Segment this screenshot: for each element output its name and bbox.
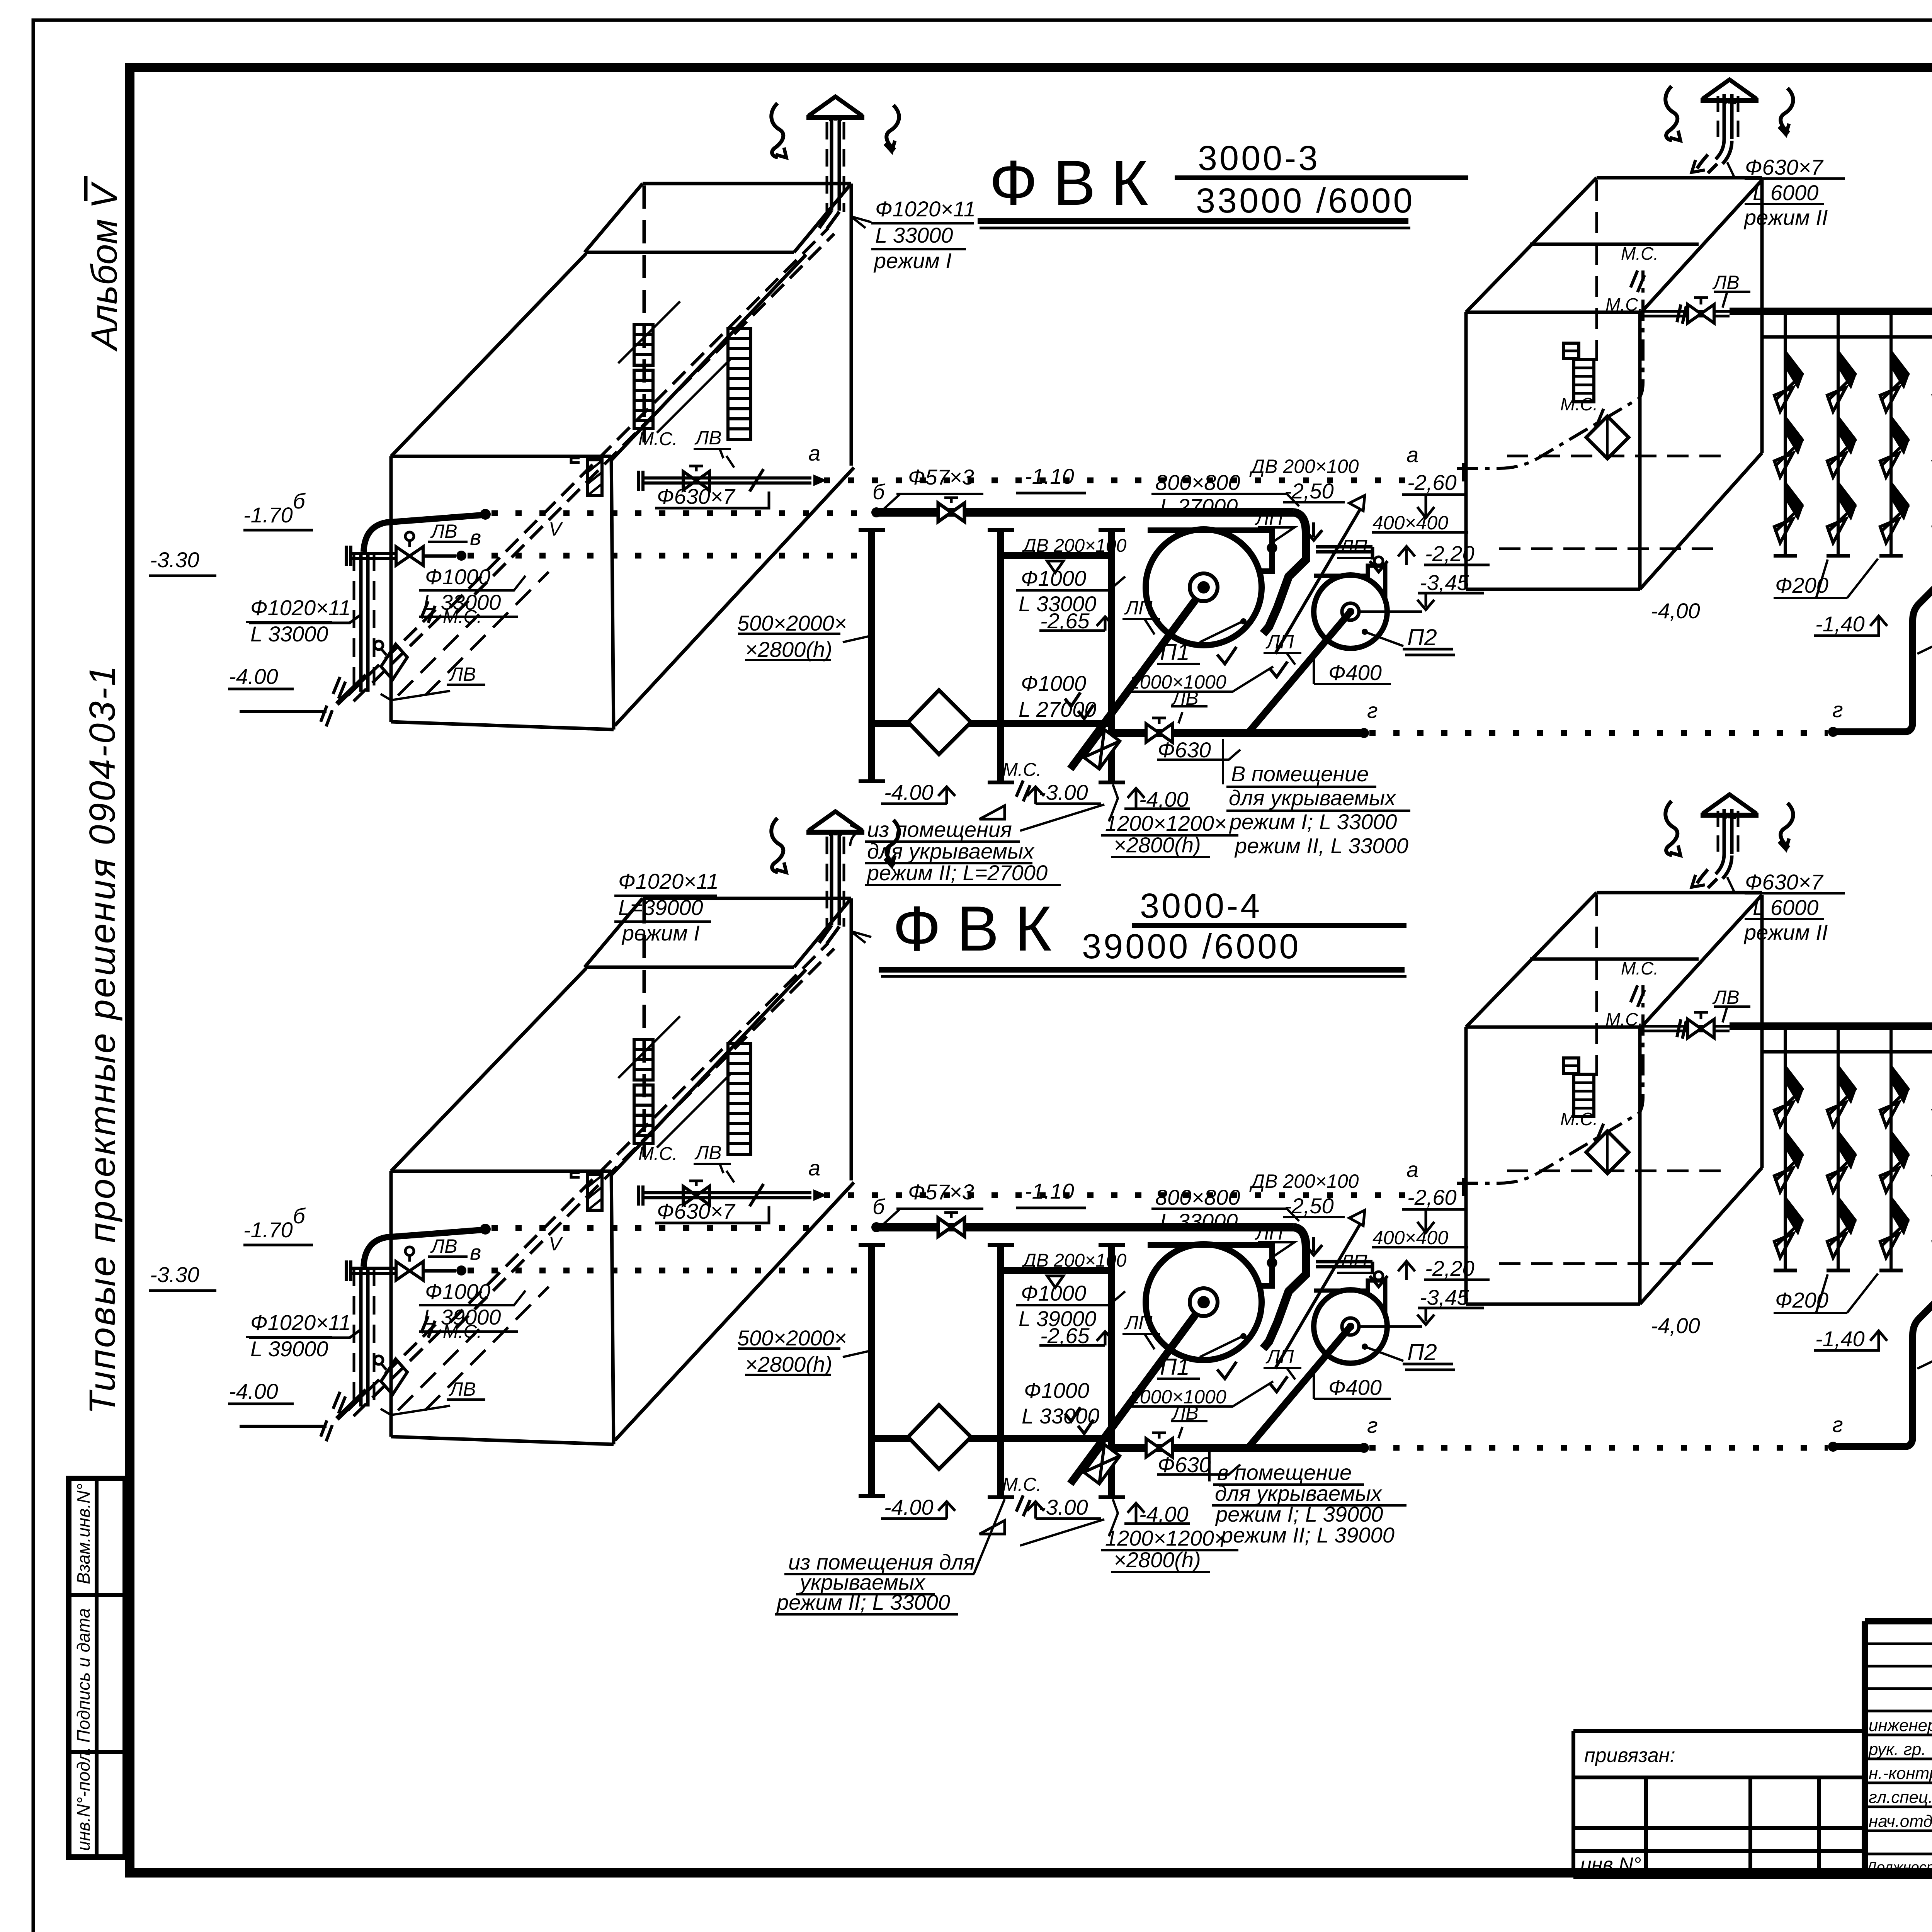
svg-text:режим II, L 33000: режим II, L 33000 xyxy=(1234,833,1408,858)
svg-text:режим I; L 33000: режим I; L 33000 xyxy=(1229,810,1397,834)
svg-text:L 33000: L 33000 xyxy=(1160,1209,1238,1233)
svg-text:L 33000: L 33000 xyxy=(875,223,953,247)
svg-text:L=39000: L=39000 xyxy=(618,895,703,920)
svg-text:Ф1000: Ф1000 xyxy=(1021,566,1086,590)
svg-text:рук. гр.: рук. гр. xyxy=(1868,1740,1926,1759)
svg-text:режим I: режим I xyxy=(873,248,952,273)
svg-text:Ф1000: Ф1000 xyxy=(1021,1281,1086,1305)
svg-text:800×800: 800×800 xyxy=(1155,470,1240,495)
svg-text:Должность: Должность xyxy=(1865,1859,1932,1876)
svg-text:Типовые проектные решения 0904: Типовые проектные решения 0904-03-1 xyxy=(82,664,123,1414)
svg-text:привязан:: привязан: xyxy=(1584,1744,1675,1767)
svg-text:режим II; L 39000: режим II; L 39000 xyxy=(1220,1523,1395,1547)
svg-text:ФВК: ФВК xyxy=(989,147,1164,218)
svg-text:3000-4: 3000-4 xyxy=(1140,887,1262,925)
svg-text:L 27000: L 27000 xyxy=(1019,697,1096,721)
svg-text:режим I: режим I xyxy=(621,921,700,945)
svg-text:инв.N°: инв.N° xyxy=(1580,1854,1641,1876)
svg-text:800×800: 800×800 xyxy=(1155,1185,1240,1209)
svg-text:L 39000: L 39000 xyxy=(1019,1306,1096,1331)
svg-text:гл.спец.: гл.спец. xyxy=(1869,1788,1932,1807)
svg-text:ФВК: ФВК xyxy=(893,893,1067,964)
svg-text:Ф1020×11: Ф1020×11 xyxy=(618,869,719,893)
svg-text:инженер: инженер xyxy=(1869,1716,1932,1735)
svg-text:Ф1020×11: Ф1020×11 xyxy=(875,197,976,221)
svg-text:В помещение: В помещение xyxy=(1231,762,1369,786)
svg-text:для укрываемых: для укрываемых xyxy=(1229,786,1396,810)
svg-text:33000 /6000: 33000 /6000 xyxy=(1196,182,1415,220)
svg-text:н.-контр.: н.-контр. xyxy=(1869,1764,1932,1783)
svg-text:Подпись и дата: Подпись и дата xyxy=(73,1608,94,1743)
svg-text:Ф1000: Ф1000 xyxy=(425,1279,490,1304)
svg-text:Ф1000: Ф1000 xyxy=(1021,671,1086,696)
svg-text:из помещения: из помещения xyxy=(867,817,1012,842)
svg-text:Ф1000: Ф1000 xyxy=(425,565,490,589)
svg-text:L 27000: L 27000 xyxy=(1160,494,1238,519)
svg-text:3000-3: 3000-3 xyxy=(1198,139,1320,178)
svg-text:L 39000: L 39000 xyxy=(423,1305,501,1329)
svg-text:L 33000: L 33000 xyxy=(1022,1404,1099,1428)
svg-text:инв.N°-подл.: инв.N°-подл. xyxy=(73,1747,94,1851)
svg-text:Взам.инв.N°: Взам.инв.N° xyxy=(73,1483,94,1584)
svg-text:нач.отд.: нач.отд. xyxy=(1869,1812,1932,1831)
svg-text:L 39000: L 39000 xyxy=(250,1337,328,1361)
svg-text:L 33000: L 33000 xyxy=(250,622,328,646)
svg-text:L 33000: L 33000 xyxy=(423,590,501,614)
svg-text:L 33000: L 33000 xyxy=(1019,592,1096,616)
svg-text:39000 /6000: 39000 /6000 xyxy=(1082,927,1301,966)
svg-text:Ф1000: Ф1000 xyxy=(1024,1378,1089,1403)
svg-text:Альбом V: Альбом V xyxy=(84,181,125,352)
